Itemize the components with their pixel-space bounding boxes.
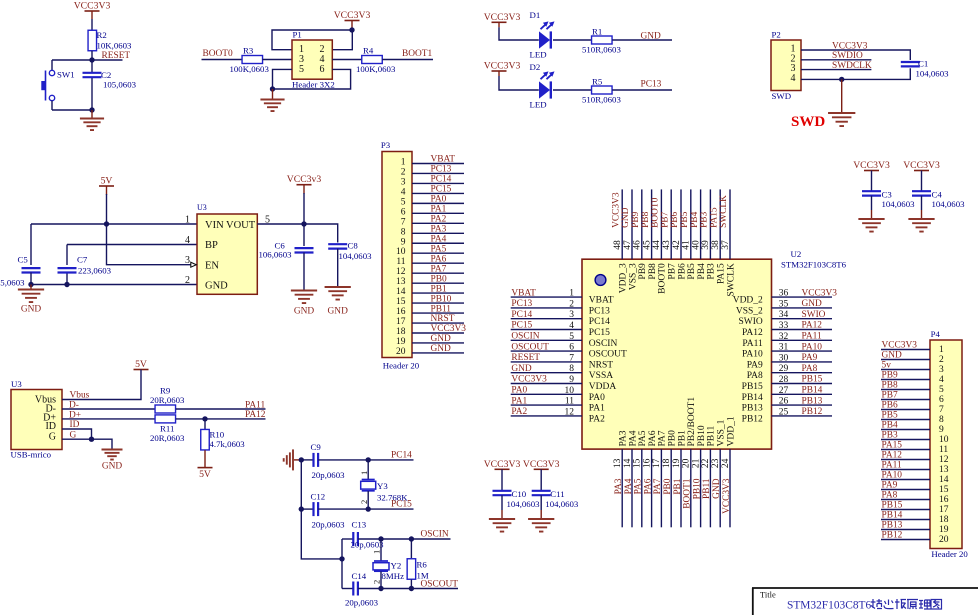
junction <box>202 416 207 421</box>
svg-text:20: 20 <box>396 347 406 357</box>
net PA7 <box>431 264 447 274</box>
wire <box>272 30 352 50</box>
svg-text:BP: BP <box>205 240 218 251</box>
svg-text:VCC3V3: VCC3V3 <box>334 10 371 21</box>
capacitor C11 <box>532 469 579 518</box>
svg-text:PB0: PB0 <box>431 274 447 284</box>
net VCC3V3 <box>832 41 868 51</box>
wire <box>263 59 293 61</box>
svg-text:Title: Title <box>760 590 776 600</box>
svg-text:PB1: PB1 <box>677 430 687 447</box>
connector P1 <box>292 30 335 90</box>
svg-text:19: 19 <box>396 337 406 347</box>
svg-text:37: 37 <box>721 240 731 250</box>
title text STM32F103C8T6 core board schematic <box>787 600 871 612</box>
svg-text:45: 45 <box>642 240 652 250</box>
net GND <box>802 299 823 309</box>
net PA10 <box>882 471 903 481</box>
net PB8 <box>882 381 898 391</box>
svg-text:PB1: PB1 <box>673 478 683 494</box>
svg-text:VCC3V3: VCC3V3 <box>832 41 868 51</box>
net PB12 <box>882 531 903 541</box>
ground <box>528 519 554 532</box>
resistor R2 <box>88 30 132 51</box>
pin 23 VSS_1 <box>711 419 727 527</box>
svg-text:PB1: PB1 <box>431 284 447 294</box>
svg-text:11: 11 <box>396 257 405 267</box>
svg-text:9: 9 <box>401 237 406 247</box>
pin 1 <box>881 345 944 355</box>
svg-text:PA1: PA1 <box>431 205 447 215</box>
pin 2 <box>401 167 464 177</box>
pin 20 <box>396 347 464 357</box>
net PC14 <box>431 175 452 185</box>
pin 11 <box>396 257 464 267</box>
svg-text:20p,0603: 20p,0603 <box>312 470 346 480</box>
svg-text:104,0603: 104,0603 <box>916 69 950 79</box>
net PB6 <box>670 211 680 227</box>
net PA0 <box>431 195 447 205</box>
net OSCIN <box>511 332 539 342</box>
svg-text:33: 33 <box>779 321 789 331</box>
ground <box>102 450 123 472</box>
svg-text:20: 20 <box>682 458 692 468</box>
net GND <box>511 364 532 374</box>
svg-text:R10: R10 <box>210 430 225 440</box>
net D+ <box>69 411 81 421</box>
svg-text:PB11: PB11 <box>707 425 717 446</box>
power VCC3V3 <box>334 10 371 30</box>
svg-text:9: 9 <box>569 375 574 385</box>
svg-text:R1: R1 <box>592 27 602 37</box>
svg-text:11: 11 <box>565 397 574 407</box>
svg-text:VCC3V3: VCC3V3 <box>511 375 547 385</box>
pin 19 <box>881 525 949 535</box>
junction <box>299 457 304 462</box>
net PA12 <box>882 451 903 461</box>
svg-text:PB0: PB0 <box>663 478 673 494</box>
svg-text:PB13: PB13 <box>742 404 763 414</box>
svg-text:VCC3V3: VCC3V3 <box>74 1 111 12</box>
svg-text:100K,0603: 100K,0603 <box>356 64 396 74</box>
svg-text:C14: C14 <box>352 571 367 581</box>
resistor R5 <box>582 77 621 105</box>
svg-text:20R,0603: 20R,0603 <box>150 395 185 405</box>
resistor R4 <box>356 46 396 75</box>
svg-text:PA5: PA5 <box>638 430 648 446</box>
pin 13 PA3 <box>613 430 629 527</box>
svg-text:23: 23 <box>711 458 721 468</box>
pin 1 <box>401 158 464 168</box>
svg-text:104,0603: 104,0603 <box>339 251 373 261</box>
power VCC3V3 <box>903 160 940 171</box>
pin 2 PC13 <box>511 299 610 316</box>
svg-text:7: 7 <box>569 353 574 363</box>
pin 15 <box>881 485 949 495</box>
net PA8 <box>802 364 818 374</box>
net PA2 <box>511 407 527 417</box>
power VCC3V3 <box>74 1 111 20</box>
svg-text:C12: C12 <box>311 491 326 501</box>
wire <box>341 539 343 589</box>
capacitor C10 <box>493 469 541 518</box>
pin 41 PB5 <box>682 189 698 279</box>
svg-text:1: 1 <box>372 550 382 554</box>
svg-text:PA0: PA0 <box>431 195 447 205</box>
net GND <box>621 207 631 228</box>
power VCC3v3 <box>287 174 322 194</box>
svg-text:6: 6 <box>320 64 325 75</box>
svg-text:SWD: SWD <box>772 91 792 101</box>
net PC13 <box>511 299 532 309</box>
svg-text:C2: C2 <box>101 70 111 80</box>
wire <box>332 59 361 61</box>
svg-text:9: 9 <box>939 425 944 435</box>
svg-text:104,0603: 104,0603 <box>932 199 966 209</box>
svg-text:2: 2 <box>569 299 574 309</box>
title CJK characters 核心板原理图 <box>871 599 942 609</box>
svg-text:R4: R4 <box>363 46 374 56</box>
svg-text:PC14: PC14 <box>431 175 452 185</box>
pin 3 <box>881 365 944 375</box>
junction <box>366 457 371 462</box>
pin 7 NRST <box>511 353 614 370</box>
net PA3 <box>614 478 624 494</box>
junction <box>89 437 94 442</box>
junction <box>839 77 844 82</box>
svg-text:PA7: PA7 <box>431 264 447 274</box>
wire <box>91 19 93 31</box>
svg-text:C13: C13 <box>352 520 367 530</box>
svg-text:105,0603: 105,0603 <box>0 278 25 288</box>
svg-text:SWDIO: SWDIO <box>832 51 863 61</box>
svg-text:PC14: PC14 <box>391 450 412 460</box>
svg-text:D+: D+ <box>69 411 81 421</box>
pin 12 <box>396 267 464 277</box>
net PA8 <box>882 491 898 501</box>
net 5v <box>882 361 892 371</box>
net PA3 <box>431 224 447 234</box>
svg-text:1: 1 <box>185 215 190 226</box>
capacitor C14 <box>342 571 379 608</box>
net PB13 <box>802 396 823 406</box>
pin 7 <box>881 405 944 415</box>
switch SW1 <box>41 60 74 110</box>
svg-text:VCC3V3: VCC3V3 <box>722 478 732 514</box>
capacitor C12 <box>301 491 345 529</box>
svg-text:PC15: PC15 <box>431 185 452 195</box>
net PA6 <box>431 254 447 264</box>
svg-text:PB12: PB12 <box>742 414 763 424</box>
net VCC3V3 <box>611 192 621 228</box>
pin 34 SWIO <box>739 310 832 327</box>
wire <box>382 59 433 61</box>
svg-text:10: 10 <box>939 435 949 445</box>
svg-text:6: 6 <box>569 343 574 353</box>
svg-text:VCC3V3: VCC3V3 <box>431 324 467 334</box>
pin 2 <box>881 355 944 365</box>
svg-text:PA4: PA4 <box>431 234 447 244</box>
net PC13 <box>641 80 662 90</box>
svg-text:OSCOUT: OSCOUT <box>589 350 627 360</box>
net PB0 <box>431 274 447 284</box>
svg-text:12: 12 <box>396 267 406 277</box>
svg-text:PA8: PA8 <box>802 364 818 374</box>
wire <box>553 39 591 41</box>
svg-text:PA0: PA0 <box>589 393 605 403</box>
net PB5 <box>882 411 898 421</box>
junction <box>378 536 414 541</box>
svg-text:PA15: PA15 <box>882 441 903 451</box>
wire <box>176 418 266 420</box>
svg-text:SWD: SWD <box>791 114 825 130</box>
pin 11 PA1 <box>511 397 605 414</box>
net PA9 <box>882 481 898 491</box>
pin 37 SWCLK <box>721 189 737 296</box>
pin 17 <box>396 317 464 327</box>
wire <box>318 459 413 461</box>
svg-text:C5: C5 <box>18 255 29 265</box>
capacitor C9 <box>301 442 345 480</box>
svg-text:100K,0603: 100K,0603 <box>230 64 270 74</box>
svg-text:PA12: PA12 <box>882 451 903 461</box>
wire <box>176 408 266 410</box>
power VCC3V3 <box>853 160 890 171</box>
svg-text:34: 34 <box>779 310 789 320</box>
svg-text:GND: GND <box>205 280 228 291</box>
svg-text:C4: C4 <box>932 189 943 199</box>
svg-text:PA7: PA7 <box>658 430 668 446</box>
svg-text:VDD_3: VDD_3 <box>619 263 629 293</box>
svg-text:PA9: PA9 <box>747 360 763 370</box>
label SWD <box>791 114 825 130</box>
svg-text:PA10: PA10 <box>882 471 903 481</box>
pin 5 <box>881 385 944 395</box>
svg-text:3: 3 <box>185 255 190 266</box>
svg-text:GND: GND <box>328 307 349 317</box>
svg-text:STM32F103C8T6: STM32F103C8T6 <box>787 600 871 612</box>
svg-text:PA9: PA9 <box>802 353 818 363</box>
pin 1 VBAT <box>511 289 614 306</box>
svg-text:EN: EN <box>205 260 219 271</box>
svg-text:2: 2 <box>372 580 382 584</box>
wire <box>612 89 672 91</box>
svg-text:5V: 5V <box>135 359 147 370</box>
svg-text:20: 20 <box>939 535 949 545</box>
svg-text:4: 4 <box>401 187 406 197</box>
wire <box>303 193 305 246</box>
svg-text:GND: GND <box>21 305 42 315</box>
svg-text:PA7: PA7 <box>653 478 663 494</box>
svg-text:P4: P4 <box>931 329 941 339</box>
svg-text:14: 14 <box>939 475 949 485</box>
pin 9 <box>881 425 944 435</box>
ground <box>284 449 302 470</box>
net Vbus <box>70 391 90 401</box>
svg-text:20R,0603: 20R,0603 <box>150 433 185 443</box>
svg-text:43: 43 <box>662 240 672 250</box>
net BOOT1 <box>683 478 693 509</box>
pin 33 PA12 <box>742 321 832 338</box>
svg-text:31: 31 <box>779 343 789 353</box>
pin 46 PB9 <box>633 189 649 279</box>
svg-text:PB13: PB13 <box>882 521 903 531</box>
pin 3 PC14 <box>511 310 610 327</box>
svg-text:5: 5 <box>569 332 574 342</box>
svg-text:OSCIN: OSCIN <box>589 339 618 349</box>
capacitor C5 <box>0 255 41 288</box>
net D- <box>69 401 79 411</box>
svg-text:510R,0603: 510R,0603 <box>582 95 621 105</box>
svg-text:PB9: PB9 <box>882 371 898 381</box>
pin 13 <box>396 277 464 287</box>
net OSCOUT <box>421 579 459 589</box>
net VCC3V3 <box>511 375 547 385</box>
svg-text:PB14: PB14 <box>802 386 823 396</box>
svg-text:PB14: PB14 <box>882 511 903 521</box>
svg-text:17: 17 <box>396 317 406 327</box>
junction <box>28 282 33 287</box>
svg-text:4.7k,0603: 4.7k,0603 <box>210 439 246 449</box>
net PA2 <box>431 215 447 225</box>
svg-text:6: 6 <box>939 395 944 405</box>
svg-text:3: 3 <box>569 310 574 320</box>
svg-text:5V: 5V <box>199 469 211 480</box>
svg-text:24: 24 <box>721 458 731 468</box>
svg-text:C8: C8 <box>348 240 359 250</box>
svg-text:R3: R3 <box>243 46 254 56</box>
net VCC3V3 <box>722 478 732 514</box>
svg-text:VSS_2: VSS_2 <box>736 306 763 316</box>
pin 17 PA7 <box>652 430 668 527</box>
svg-text:106,0603: 106,0603 <box>259 250 293 260</box>
svg-text:PA1: PA1 <box>511 396 527 406</box>
svg-text:BOOT1: BOOT1 <box>683 478 693 509</box>
pin 19 PB1 <box>672 430 688 527</box>
net PB14 <box>882 511 903 521</box>
pin 24 VDD_1 <box>721 416 737 527</box>
svg-text:NRST: NRST <box>589 360 613 370</box>
svg-text:2: 2 <box>359 500 369 504</box>
pin 20 PB2/BOOT1 <box>682 397 698 528</box>
pin 6 <box>401 207 464 217</box>
svg-text:39: 39 <box>701 240 711 250</box>
svg-text:PA5: PA5 <box>634 478 644 494</box>
svg-text:10: 10 <box>396 247 406 257</box>
svg-text:PB12: PB12 <box>882 531 903 541</box>
power VCC3V3 <box>484 459 521 470</box>
svg-text:44: 44 <box>652 240 662 250</box>
svg-text:14: 14 <box>623 458 633 468</box>
net PC14 <box>511 310 532 320</box>
svg-text:GND: GND <box>802 299 823 309</box>
net RESET <box>511 353 540 363</box>
svg-text:510R,0603: 510R,0603 <box>582 45 621 55</box>
svg-text:PA3: PA3 <box>614 478 624 494</box>
resistor R3 <box>230 46 270 75</box>
net PA11 <box>882 461 902 471</box>
svg-text:3: 3 <box>401 177 406 187</box>
net PB1 <box>431 284 447 294</box>
svg-text:42: 42 <box>672 240 682 250</box>
svg-text:PA12: PA12 <box>802 321 823 331</box>
ground <box>80 110 104 130</box>
LED D2 <box>530 62 555 110</box>
net PC14 <box>391 450 412 460</box>
svg-text:PB7: PB7 <box>668 263 678 280</box>
wire <box>62 408 155 410</box>
svg-text:PA6: PA6 <box>431 254 447 264</box>
capacitor C3 <box>862 171 915 219</box>
svg-text:30: 30 <box>779 353 789 363</box>
wire <box>273 69 351 89</box>
svg-text:15: 15 <box>633 458 643 468</box>
svg-text:13: 13 <box>613 458 623 468</box>
pin 15 PA5 <box>633 430 649 527</box>
ground <box>325 287 351 317</box>
svg-text:16: 16 <box>939 495 949 505</box>
svg-text:PA4: PA4 <box>624 478 634 494</box>
pin 26 PB13 <box>742 397 832 414</box>
svg-text:PB2/BOOT1: PB2/BOOT1 <box>687 397 697 447</box>
svg-text:PB3: PB3 <box>882 431 898 441</box>
svg-text:105,0603: 105,0603 <box>103 80 137 90</box>
pin 27 PB14 <box>742 386 832 403</box>
svg-text:PB11: PB11 <box>702 478 712 499</box>
ground <box>908 219 934 232</box>
pin 18 PB0 <box>662 430 678 527</box>
svg-text:36: 36 <box>779 289 789 299</box>
svg-text:PA15: PA15 <box>709 207 719 228</box>
svg-text:SWCLK: SWCLK <box>719 195 729 228</box>
svg-text:VBAT: VBAT <box>511 288 536 298</box>
net G <box>70 430 77 440</box>
wire <box>358 538 451 540</box>
net PB13 <box>882 521 903 531</box>
wire <box>257 224 337 243</box>
svg-text:15: 15 <box>396 297 406 307</box>
connector U3 USB <box>11 379 63 460</box>
svg-text:PB8: PB8 <box>882 381 898 391</box>
svg-text:PA8: PA8 <box>882 491 898 501</box>
junction <box>378 586 414 591</box>
svg-text:18: 18 <box>662 458 672 468</box>
net PB3 <box>700 211 710 227</box>
svg-text:PB11: PB11 <box>431 304 452 314</box>
pin 39 PB3 <box>701 189 717 279</box>
svg-text:PB10: PB10 <box>697 425 707 446</box>
pin 47 VSS_3 <box>623 189 639 290</box>
junction <box>104 221 109 226</box>
svg-text:46: 46 <box>633 240 643 250</box>
svg-text:PA11: PA11 <box>742 339 763 349</box>
net PB11 <box>702 478 712 499</box>
pin 12 <box>881 455 949 465</box>
resistor R9 <box>150 386 185 414</box>
svg-text:VSS_1: VSS_1 <box>717 419 727 446</box>
pin 16 <box>396 307 464 317</box>
pin 8 VSSA <box>511 364 614 381</box>
svg-text:8: 8 <box>401 227 406 237</box>
wire <box>499 27 539 40</box>
svg-text:PA15: PA15 <box>717 263 727 284</box>
svg-text:GND: GND <box>294 307 315 317</box>
net PA6 <box>643 478 653 494</box>
pin 8 <box>401 227 464 237</box>
net PB15 <box>882 501 903 511</box>
pin 32 PA11 <box>742 332 832 349</box>
svg-text:6: 6 <box>401 207 406 217</box>
